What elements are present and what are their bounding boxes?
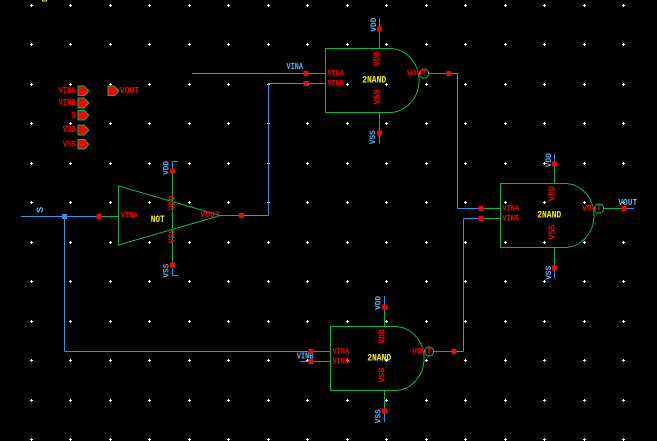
svg-text:2NAND: 2NAND (362, 76, 386, 87)
svg-text:VDD: VDD (548, 185, 558, 201)
svg-text:2NAND: 2NAND (367, 354, 391, 365)
svg-text:VINB: VINB (332, 358, 349, 367)
svg-text:VDD: VDD (378, 328, 388, 344)
svg-text:VDD: VDD (168, 195, 178, 211)
svg-text:VSS: VSS (378, 367, 388, 383)
svg-text:S: S (35, 207, 47, 213)
svg-text:VSS: VSS (548, 224, 558, 240)
svg-text:VOUT: VOUT (582, 205, 602, 214)
svg-text:VSS: VSS (63, 139, 76, 149)
svg-text:VOUT: VOUT (200, 211, 220, 220)
svg-text:VINA: VINA (59, 86, 76, 96)
svg-text:VSS: VSS (168, 228, 178, 244)
svg-text:VSS: VSS (368, 130, 378, 144)
svg-text:VINB: VINB (327, 80, 344, 89)
svg-text:VINB: VINB (59, 98, 76, 108)
svg-text:VOUT: VOUT (412, 348, 432, 357)
svg-text:NOT: NOT (151, 215, 165, 226)
svg-text:VOUT: VOUT (618, 198, 638, 208)
svg-text:VOUT: VOUT (407, 70, 427, 79)
svg-text:VSS: VSS (373, 89, 383, 105)
svg-text:S: S (71, 110, 76, 120)
svg-text:VINB: VINB (502, 215, 519, 224)
svg-text:VOUT: VOUT (120, 86, 140, 96)
svg-text:VDD: VDD (63, 125, 76, 135)
svg-text:2NAND: 2NAND (537, 211, 561, 222)
svg-text:VINA: VINA (327, 70, 344, 79)
svg-text:VINA: VINA (121, 212, 138, 221)
svg-text:VINA: VINA (332, 348, 349, 357)
svg-text:VINA: VINA (502, 205, 519, 214)
svg-text:VDD: VDD (373, 50, 383, 66)
svg-text:VDD: VDD (373, 296, 383, 310)
svg-text:VINA: VINA (287, 62, 304, 72)
